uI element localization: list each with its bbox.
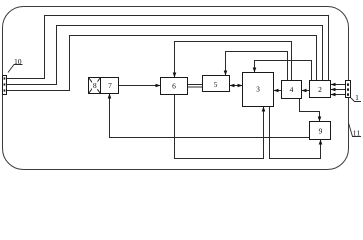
block 7 <box>101 78 119 94</box>
label 8 <box>93 83 96 88</box>
wire: connector 1 pin3 to block 2 <box>331 94 346 96</box>
wire: block 2 top to block 3 top <box>255 61 312 81</box>
label 7 <box>109 83 112 88</box>
block 3 <box>243 73 274 107</box>
wire: block 3 bottom to block 9 bottom <box>270 107 321 159</box>
wire: block 4 bottom to block 9 top <box>300 99 320 122</box>
label 11 <box>353 131 359 136</box>
wire: connector 1 pin2 to block 2 <box>331 89 346 91</box>
wire: block 2 to block 4 <box>302 90 310 92</box>
wire: double line block 6 to block 5 (lower) <box>188 86 203 88</box>
label 1 <box>356 95 359 100</box>
label 4 <box>290 87 293 92</box>
leader line for label 1 <box>351 98 361 102</box>
connector 1 pins <box>347 83 349 85</box>
connector 1 <box>346 81 351 98</box>
block 2 <box>310 81 331 98</box>
label 6 <box>172 84 175 89</box>
connector 10 pins <box>4 77 6 79</box>
wire: connector 10 pin1 over top to block 2 <box>7 16 329 81</box>
label 9 <box>319 129 322 134</box>
leader line for label 11 <box>349 124 361 137</box>
wire: block 4 top to block 5 top <box>226 52 288 81</box>
leader line for label 10 <box>8 65 23 73</box>
wire: block 5 to block 3 bidirectional <box>230 85 243 87</box>
connector 10 <box>3 76 7 95</box>
system boundary 11 <box>3 7 349 170</box>
wire: connector 1 pin1 to block 2 <box>331 84 346 86</box>
wire: block 4 to block 3 <box>274 90 282 92</box>
wire: double line block 6 to block 5 (upper) <box>188 84 203 86</box>
label 3 <box>256 87 259 92</box>
block 5 <box>203 76 230 92</box>
wire: block 9 left to block 7 bottom <box>110 94 310 138</box>
block 8 sensor crossed box <box>89 78 101 94</box>
wire: block 4 top to block 6 top <box>175 42 292 81</box>
label 2 <box>318 87 321 92</box>
wire: connector 10 pin3 over top to block 2 <box>7 36 317 91</box>
wire: connector 10 pin2 over top to block 2 <box>7 26 323 85</box>
block 6 <box>161 78 188 95</box>
label 5 <box>214 82 217 87</box>
wire: block 6 bottom to block 3 bottom <box>175 95 264 159</box>
block 9 <box>310 122 331 140</box>
block 4 <box>282 81 302 99</box>
label 10 <box>15 59 22 64</box>
wire: block 7 to block 6 <box>119 85 161 87</box>
